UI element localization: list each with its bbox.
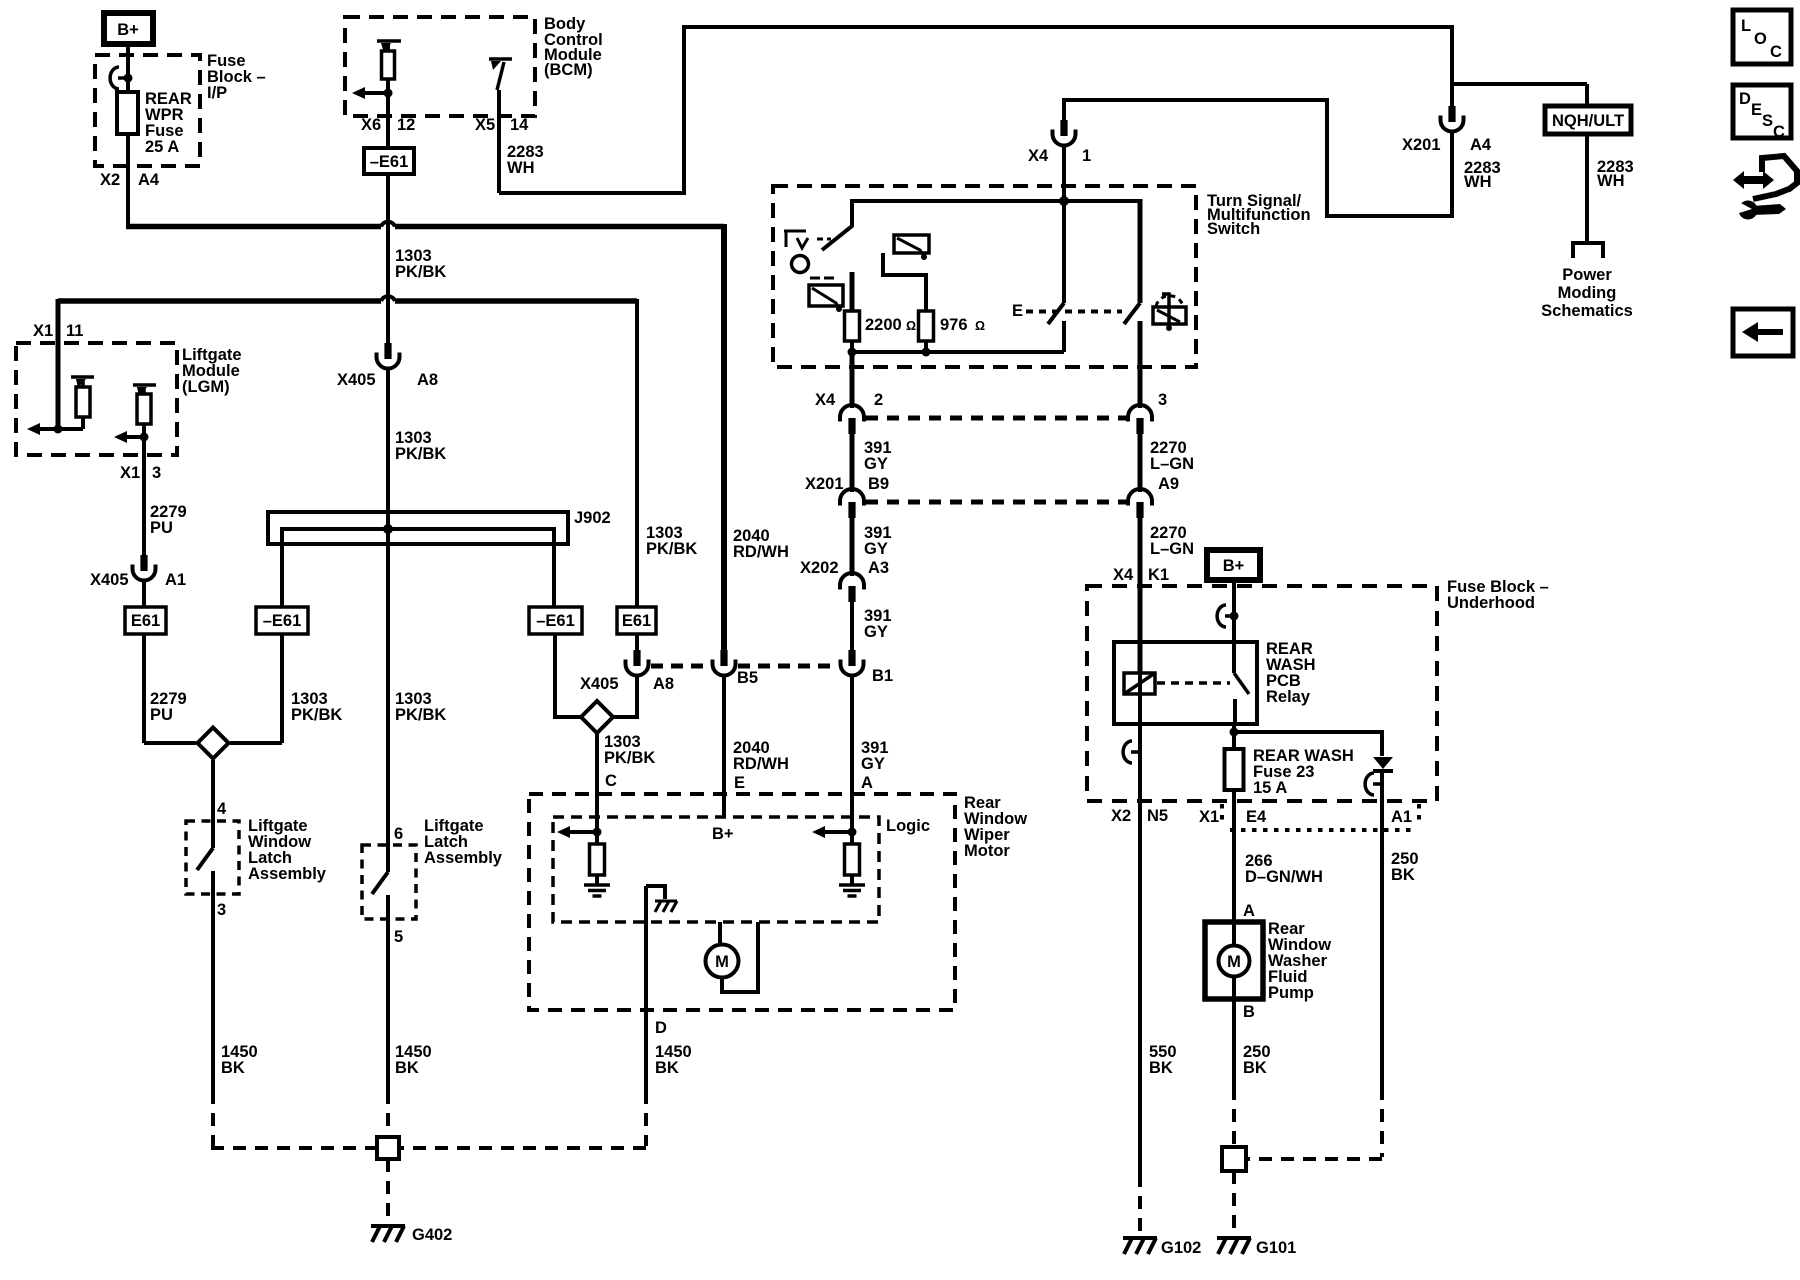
connector B5: [713, 650, 736, 680]
connector dashed line X405: [651, 664, 711, 669]
svg-text:14: 14: [510, 116, 529, 134]
svg-text:X6: X6: [361, 116, 381, 134]
Body Control Module (BCM) dashed box: [345, 17, 535, 116]
svg-text:Ω: Ω: [906, 319, 916, 333]
bus bar splice pack J902: [268, 512, 568, 544]
wire 2040 RD/WH down to wiper motor B+: [721, 224, 727, 652]
wire dashed D to ground junction: [644, 1091, 648, 1146]
svg-text:O: O: [1754, 30, 1767, 48]
Turn Signal / Multifunction Switch dashed box: [773, 186, 1196, 367]
svg-text:GY: GY: [861, 755, 885, 773]
connector B1: [841, 650, 864, 680]
svg-text:5: 5: [394, 928, 403, 946]
svg-text:PK/BK: PK/BK: [395, 263, 446, 281]
svg-text:(LGM): (LGM): [182, 378, 230, 396]
wire pump B down: [1232, 999, 1236, 1087]
wiper park symbol (left): [810, 277, 834, 280]
chassis ground symbol (internal): [655, 901, 677, 912]
svg-text:PK/BK: PK/BK: [604, 749, 655, 767]
Fuse Block - Underhood dashed box: [1087, 586, 1437, 801]
svg-text:1: 1: [1082, 147, 1091, 165]
ground junction box: [1222, 1147, 1246, 1171]
option box NQH/ULT: [1545, 106, 1631, 134]
svg-text:X4: X4: [1028, 147, 1049, 165]
internal bottom wire to resistors: [852, 350, 1064, 354]
svg-text:X2: X2: [1111, 807, 1131, 825]
Liftgate Window Latch Assembly dashed box: [186, 821, 239, 894]
svg-text:NQH/ULT: NQH/ULT: [1552, 112, 1624, 130]
wire dashed junction to G101: [1232, 1171, 1236, 1236]
earth ground (A): [839, 885, 865, 896]
wire 1303 PK/BK from -E61 down through hops: [386, 174, 390, 343]
relay dashed link: [1157, 681, 1230, 685]
label box E61 (left): [125, 607, 166, 634]
fuse REAR WPR Fuse 25 A: [117, 92, 138, 134]
svg-text:Underhood: Underhood: [1447, 594, 1535, 612]
LGM internal resistor 1: [76, 387, 90, 417]
svg-text:WH: WH: [1464, 173, 1492, 191]
svg-text:11: 11: [66, 322, 83, 340]
wire N5 below relay: [1138, 724, 1142, 801]
LGM internal feed terminal 1: [71, 375, 94, 379]
svg-text:–E61: –E61: [536, 612, 575, 630]
svg-text:X202: X202: [800, 559, 839, 577]
svg-text:E4: E4: [1246, 808, 1267, 826]
svg-text:B5: B5: [737, 669, 758, 687]
svg-text:A: A: [861, 774, 873, 792]
svg-text:A1: A1: [1391, 808, 1412, 826]
resistor 976 ohm: [919, 311, 934, 341]
node junction at clip: [124, 74, 133, 83]
LGM internal feed terminal 2: [133, 383, 156, 387]
svg-text:L: L: [1741, 17, 1751, 35]
wire -E61 down to splice S2: [555, 634, 580, 717]
svg-text:X1: X1: [33, 322, 53, 340]
svg-text:Schematics: Schematics: [1541, 302, 1633, 320]
connector X405 A8 (second): [626, 650, 649, 680]
connector X201 A4: [1441, 106, 1464, 136]
wire 1303 through J902: [386, 372, 390, 544]
svg-text:PK/BK: PK/BK: [646, 540, 697, 558]
wire D 1450 BK: [644, 886, 648, 1091]
internal ground lead D: [646, 886, 665, 899]
resistor 2200 ohm: [845, 311, 860, 341]
svg-text:C: C: [605, 772, 617, 790]
svg-text:X201: X201: [1402, 136, 1441, 154]
svg-text:A: A: [1243, 902, 1255, 920]
svg-text:PK/BK: PK/BK: [395, 706, 446, 724]
wire A8 down to splice S2: [614, 678, 637, 717]
Liftgate Latch Assembly dashed box: [362, 845, 416, 919]
svg-text:Ω: Ω: [975, 319, 985, 333]
wire branch to NQH/ULT: [1450, 82, 1587, 86]
wire branch to diode: [1234, 732, 1382, 756]
icon box DESC: [1733, 85, 1791, 138]
fuse REAR WASH Fuse 23 15A: [1225, 749, 1244, 790]
internal arrow C: [568, 830, 597, 834]
svg-text:B: B: [1243, 1003, 1255, 1021]
wash contact circle: [792, 256, 809, 273]
node junction: [54, 425, 63, 434]
switch in latch 1: [211, 821, 215, 848]
splice diamond S1: [198, 728, 229, 759]
ground junction box G402: [377, 1137, 399, 1159]
wire E61 down: [635, 634, 639, 652]
svg-text:WH: WH: [1597, 172, 1625, 190]
wire 391 GY to B1: [850, 602, 854, 652]
svg-text:E: E: [1751, 101, 1762, 119]
wire X4-1 input junction: [1059, 196, 1069, 206]
Logic dashed box: [553, 817, 879, 922]
wires below X201: [850, 518, 855, 573]
terminal clip on N5: [1123, 741, 1140, 763]
wire: 2040 RD/WH feed line (horizontal) with hop over 1303 wire: [126, 224, 381, 230]
svg-text:X201: X201: [805, 475, 844, 493]
svg-text:–E61: –E61: [263, 612, 302, 630]
svg-text:15 A: 15 A: [1253, 779, 1287, 797]
wire 2270 L-GN down to K1: [1138, 518, 1143, 673]
wire J902 left branch to -E61: [280, 544, 284, 607]
svg-text:PU: PU: [150, 519, 173, 537]
svg-text:E: E: [1012, 302, 1023, 320]
svg-text:(BCM): (BCM): [544, 61, 593, 79]
wire 976 top: [883, 253, 926, 311]
svg-text:B1: B1: [872, 667, 893, 685]
svg-text:E61: E61: [622, 612, 651, 630]
svg-text:X405: X405: [580, 675, 619, 693]
svg-text:I/P: I/P: [207, 84, 227, 102]
svg-text:B+: B+: [1223, 557, 1245, 575]
wire 391 GY from switch to X4-2: [850, 352, 855, 406]
svg-text:M: M: [1227, 953, 1241, 971]
svg-text:D: D: [1739, 90, 1751, 108]
svg-text:X405: X405: [90, 571, 129, 589]
wiper symbol (upper middle): [894, 235, 929, 253]
wire B5 to wiper motor B+: [722, 678, 726, 818]
svg-text:L–GN: L–GN: [1150, 540, 1194, 558]
wire NQH/ULT down: [1585, 134, 1589, 243]
svg-text:C: C: [1773, 123, 1785, 141]
BCM internal feed terminal bar: [377, 39, 401, 43]
svg-text:BK: BK: [221, 1059, 245, 1077]
svg-text:G402: G402: [412, 1226, 452, 1244]
svg-text:L–GN: L–GN: [1150, 455, 1194, 473]
relay switch: [1232, 642, 1236, 673]
wire latch2 from J902 line down: [386, 544, 390, 846]
wire 2279 PU down to splice: [142, 634, 146, 743]
svg-text:B9: B9: [868, 475, 889, 493]
svg-text:BK: BK: [655, 1059, 679, 1077]
wire X6-12 down to -E61: [386, 93, 390, 148]
svg-text:2: 2: [874, 391, 883, 409]
wire from B+ to fuse: [126, 47, 130, 93]
node junction fuse top: [1230, 728, 1239, 737]
connector X405 A1: [133, 555, 156, 585]
connector X405 A8 (first): [377, 343, 400, 373]
svg-text:3: 3: [152, 464, 161, 482]
wire 2200 top: [850, 272, 855, 311]
diode: [1373, 757, 1393, 769]
off-page bracket: [1573, 243, 1603, 258]
svg-text:A8: A8: [417, 371, 438, 389]
svg-text:GY: GY: [864, 455, 888, 473]
node junction C input: [593, 828, 602, 837]
BCM internal switch contact bar: [489, 57, 512, 61]
wire S2 down to wiper motor C: [595, 734, 599, 832]
svg-text:Moding: Moding: [1558, 284, 1617, 302]
svg-text:D–GN/WH: D–GN/WH: [1245, 868, 1323, 886]
wire: liftgate feed line 2 (horizontal) with hop: [58, 298, 381, 304]
svg-text:A1: A1: [165, 571, 186, 589]
svg-text:D: D: [655, 1019, 667, 1037]
label box -E61 (top): [364, 148, 414, 174]
svg-text:C: C: [1770, 43, 1782, 61]
icon box LOC: [1733, 10, 1791, 64]
svg-text:12: 12: [397, 116, 415, 134]
wire dashed A1 250 BK to junction: [1380, 1087, 1384, 1157]
wire liftgate line2 down to E61: [635, 299, 639, 607]
wire dashed to ground junction: [211, 1091, 215, 1146]
Fuse Block - I/P dashed box: [95, 55, 200, 166]
wire crossover hop: [381, 222, 395, 227]
svg-text:WH: WH: [507, 159, 535, 177]
wiper switch lever (right): [1138, 199, 1143, 303]
svg-text:RD/WH: RD/WH: [733, 755, 789, 773]
svg-text:Relay: Relay: [1266, 688, 1311, 706]
wire below BCM fuse: [386, 79, 390, 93]
switch E lever: [1062, 201, 1066, 303]
wire to E61: [142, 583, 146, 607]
svg-text:GY: GY: [864, 540, 888, 558]
wire 1450 BK (middle): [386, 919, 390, 1091]
svg-text:A3: A3: [868, 559, 889, 577]
Liftgate Module (LGM) dashed box: [16, 343, 177, 455]
wire splice to liftgate window latch: [211, 760, 215, 821]
svg-text:3: 3: [1158, 391, 1167, 409]
connector X1 dotted outline: [1222, 804, 1419, 830]
svg-text:M: M: [715, 953, 729, 971]
svg-text:GY: GY: [864, 623, 888, 641]
svg-text:X4: X4: [815, 391, 836, 409]
svg-text:PK/BK: PK/BK: [291, 706, 342, 724]
wire 2283 WH down and left to X4-1: [1064, 100, 1452, 216]
LGM internal resistor 2: [137, 394, 151, 424]
BCM internal switch lever: [497, 62, 504, 90]
svg-text:X2: X2: [100, 171, 120, 189]
svg-text:Assembly: Assembly: [248, 865, 327, 883]
svg-text:E: E: [734, 774, 745, 792]
internal resistor A: [845, 844, 860, 875]
svg-text:A4: A4: [138, 171, 160, 189]
label box -E61 (left): [256, 607, 308, 634]
internal resistor C: [590, 844, 605, 875]
wire relay output to fuse 23: [1232, 724, 1236, 749]
terminal clip in fuse block I/P: [110, 67, 127, 89]
relay coil: [1124, 673, 1155, 694]
wire X4-1 into switch: [1062, 148, 1066, 201]
REAR WASH PCB Relay box: [1114, 642, 1257, 724]
wire K1 through coil: [1138, 673, 1142, 724]
connector X4 1: [1053, 120, 1076, 150]
svg-text:976: 976: [940, 316, 968, 334]
svg-text:Motor: Motor: [964, 842, 1010, 860]
node junction: [140, 433, 149, 442]
wire fuse output down to feed line: [126, 134, 130, 229]
washer pump motor M: [1232, 922, 1236, 946]
svg-text:6: 6: [394, 825, 403, 843]
svg-text:A4: A4: [1470, 136, 1492, 154]
label box -E61 (right): [529, 607, 582, 634]
ground G402: [371, 1226, 405, 1242]
switch in latch 2: [386, 846, 390, 872]
Rear Window Washer Fluid Pump box: [1205, 922, 1263, 999]
wire resistor 1 to junction: [81, 417, 85, 429]
BCM internal fuse: [382, 51, 395, 79]
icon box back arrow: [1733, 309, 1793, 356]
svg-text:A9: A9: [1158, 475, 1179, 493]
svg-text:25 A: 25 A: [145, 138, 179, 156]
wash switch lever: [822, 199, 852, 250]
ground G102: [1123, 1238, 1157, 1254]
internal arrow left 1: [27, 423, 40, 435]
wire -E61 down to splice: [280, 634, 284, 743]
splice diamond S2: [581, 701, 613, 733]
terminal clip at B+ lead: [1217, 605, 1234, 627]
label box E61 (right): [617, 607, 656, 634]
wire 2283 WH route right and up: [499, 191, 684, 195]
svg-text:4: 4: [217, 800, 227, 818]
wire X1-3 out of LGM: [142, 437, 146, 556]
svg-text:X5: X5: [475, 116, 495, 134]
intermittent wiper icon: [1156, 296, 1183, 306]
wiper motor M: [718, 922, 722, 945]
wire diode output: [1380, 771, 1384, 1087]
wash contact cluster: [784, 231, 806, 247]
wire dashed to ground: [386, 1159, 390, 1223]
wire X5-14 down: [497, 90, 501, 193]
svg-text:RD/WH: RD/WH: [733, 543, 789, 561]
wire fuse 23 output: [1232, 790, 1236, 922]
svg-text:X1: X1: [1199, 808, 1219, 826]
svg-text:BK: BK: [395, 1059, 419, 1077]
wire resistor 2 to junction: [142, 424, 146, 437]
svg-text:X4: X4: [1113, 566, 1134, 584]
svg-text:X1: X1: [120, 464, 140, 482]
internal top wire: [852, 199, 1140, 203]
wire 550 BK: [1138, 801, 1142, 1174]
svg-text:BK: BK: [1391, 866, 1415, 884]
icon arrows and wrench: [1733, 156, 1797, 220]
wire dashed 550 BK to G102: [1138, 1174, 1142, 1236]
svg-text:BK: BK: [1149, 1059, 1173, 1077]
internal arrow left 2: [114, 431, 127, 443]
wire dashed into ground junction: [386, 1091, 390, 1137]
wire B+ down into fuse block: [1232, 580, 1236, 642]
svg-text:Pump: Pump: [1268, 984, 1314, 1002]
svg-text:B+: B+: [712, 825, 734, 843]
internal arrow to other circuits: [363, 91, 388, 95]
Rear Window Wiper Motor dashed box: [529, 794, 955, 1010]
node junction: [384, 89, 393, 98]
svg-text:G101: G101: [1256, 1239, 1296, 1257]
svg-text:E61: E61: [131, 612, 160, 630]
svg-text:N5: N5: [1147, 807, 1168, 825]
wire dashed 250 BK to junction: [1232, 1087, 1236, 1147]
wire crossover hop: [381, 296, 395, 301]
svg-text:PU: PU: [150, 706, 173, 724]
svg-text:S: S: [1762, 112, 1773, 130]
svg-text:Switch: Switch: [1207, 220, 1260, 238]
ground G101: [1217, 1238, 1251, 1254]
terminal clip below diode: [1365, 773, 1382, 795]
svg-text:Power: Power: [1562, 266, 1612, 284]
wire top right corner down: [1450, 25, 1454, 106]
svg-text:B+: B+: [117, 21, 139, 39]
svg-text:2200: 2200: [865, 316, 902, 334]
svg-text:3: 3: [217, 901, 226, 919]
svg-text:PK/BK: PK/BK: [395, 445, 446, 463]
wire J902 right branch to -E61: [552, 544, 556, 607]
svg-text:Logic: Logic: [886, 817, 930, 835]
wire 2283 WH top run: [682, 25, 1454, 29]
svg-text:J902: J902: [574, 509, 611, 527]
earth ground (C): [584, 885, 610, 896]
wire X1-11 into LGM: [56, 299, 61, 429]
B+ power symbol box (top left): [104, 13, 153, 44]
svg-text:A8: A8: [653, 675, 674, 693]
svg-text:K1: K1: [1148, 566, 1169, 584]
internal arrow A: [823, 830, 852, 834]
svg-text:BK: BK: [1243, 1059, 1267, 1077]
connector dashed line: [738, 664, 838, 669]
svg-text:G102: G102: [1161, 1239, 1201, 1257]
svg-text:X405: X405: [337, 371, 376, 389]
svg-text:Assembly: Assembly: [424, 849, 503, 867]
wires down to X201 row: [850, 434, 855, 490]
wire B1 down to wiper motor A: [850, 678, 854, 832]
svg-text:–E61: –E61: [370, 153, 409, 171]
node junction A input: [848, 828, 857, 837]
B+ power symbol box (right): [1207, 550, 1260, 580]
wire 1450 BK (left): [211, 894, 215, 1091]
